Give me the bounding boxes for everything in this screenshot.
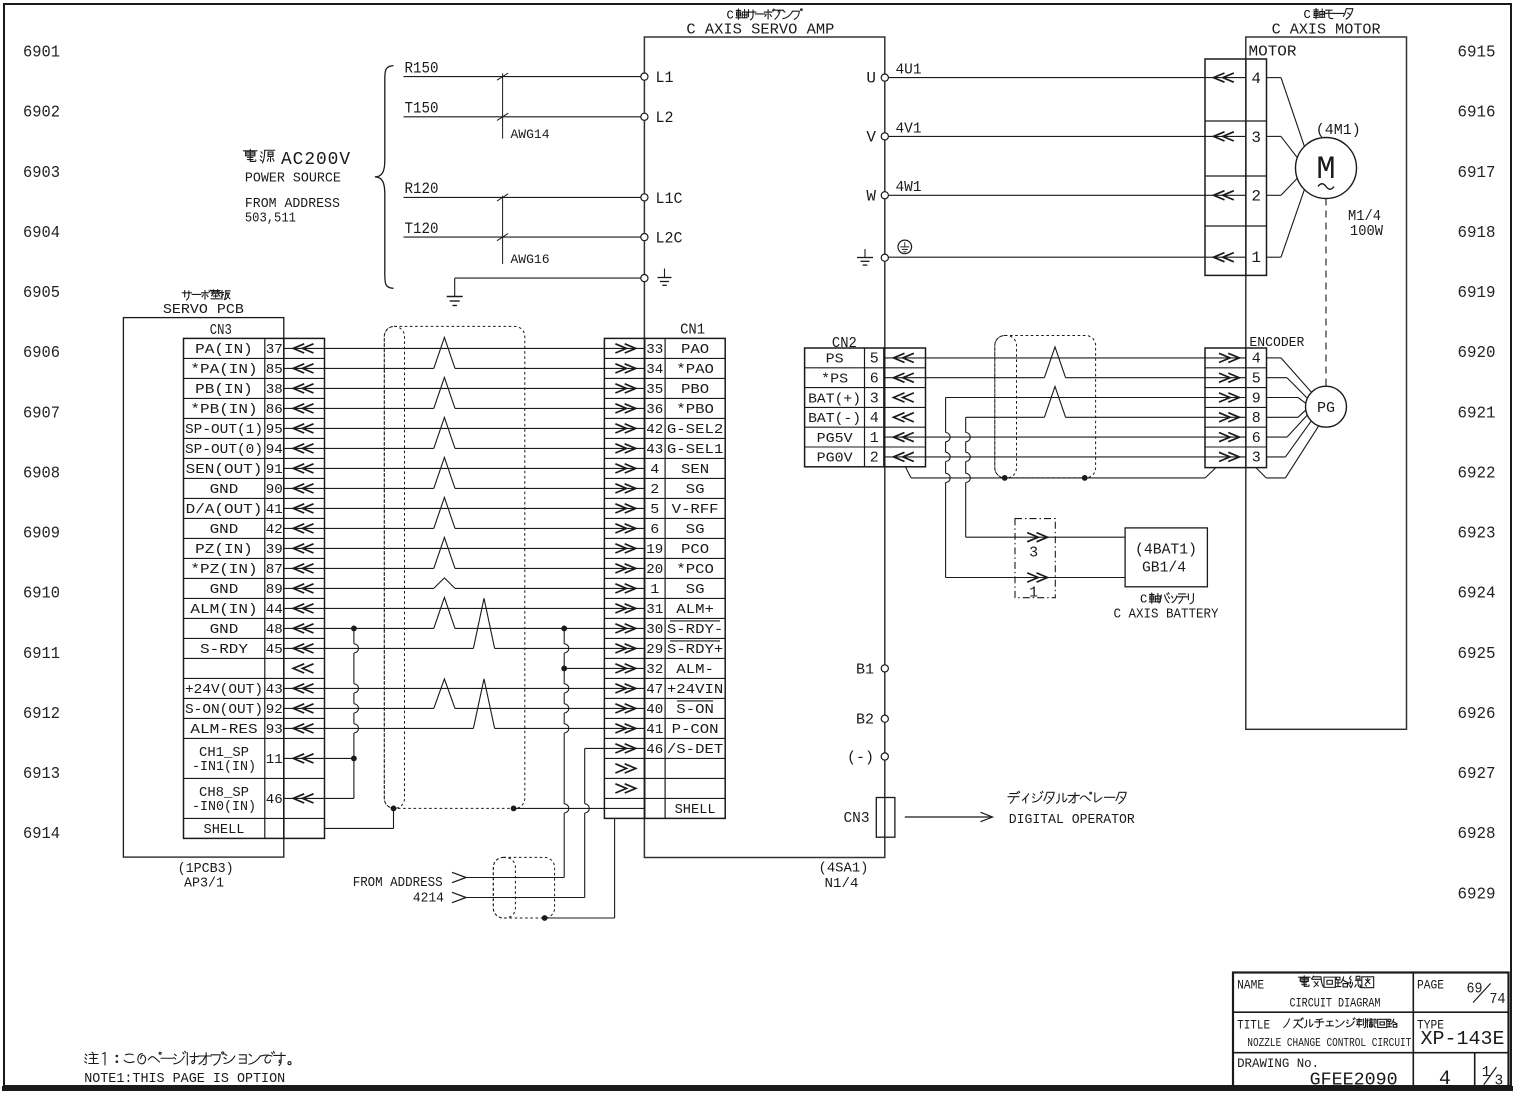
svg-text:XP-143E: XP-143E (1421, 1028, 1505, 1050)
svg-text:T120: T120 (405, 220, 439, 238)
amp terminal B2 (881, 715, 888, 722)
CN2 connector table (805, 348, 884, 467)
amp terminal L1C (641, 194, 648, 201)
svg-text:6928: 6928 (1458, 825, 1496, 844)
svg-text:L1C: L1C (656, 190, 683, 208)
svg-text:4: 4 (1252, 351, 1261, 368)
svg-text:6919: 6919 (1458, 284, 1496, 303)
svg-text:BAT(+): BAT(+) (808, 392, 861, 407)
svg-text:6926: 6926 (1458, 705, 1496, 724)
svg-text:PS: PS (826, 353, 844, 368)
svg-text:SERVO PCB: SERVO PCB (163, 302, 244, 318)
svg-text:6905: 6905 (23, 284, 60, 303)
svg-text:SEN(OUT): SEN(OUT) (186, 462, 263, 478)
wire CN3-CN1 row 5 (284, 427, 645, 429)
svg-text:SG: SG (686, 482, 705, 498)
svg-text:30: 30 (646, 622, 663, 638)
ground symbol left (447, 296, 463, 298)
svg-text:6927: 6927 (1458, 765, 1496, 784)
amp terminal PE right (881, 254, 888, 261)
svg-text:86: 86 (266, 402, 283, 418)
svg-text:CH1_SP: CH1_SP (199, 746, 249, 761)
battery connector (1015, 519, 1055, 598)
encoder pin 6 (1219, 433, 1239, 442)
svg-text:3: 3 (1251, 129, 1261, 147)
svg-text:3: 3 (1029, 545, 1038, 562)
svg-text:90: 90 (266, 482, 283, 498)
svg-text:+24VIN: +24VIN (667, 682, 723, 698)
svg-text:AC200V: AC200V (281, 149, 351, 170)
svg-text:34: 34 (646, 362, 663, 378)
svg-text:95: 95 (266, 422, 283, 438)
svg-text:FROM ADDRESS: FROM ADDRESS (353, 875, 443, 891)
svg-text:L2C: L2C (656, 230, 683, 248)
svg-text:SP-OUT(1): SP-OUT(1) (185, 422, 263, 438)
svg-text:1: 1 (650, 582, 659, 598)
svg-text:1: 1 (1482, 1065, 1491, 1081)
svg-text:91: 91 (266, 462, 283, 478)
title block (1233, 973, 1509, 1088)
svg-text:TITLE: TITLE (1237, 1019, 1270, 1033)
svg-text:T150: T150 (405, 100, 439, 118)
svg-text:BAT(-): BAT(-) (808, 412, 861, 427)
svg-text:CIRCUIT DIAGRAM: CIRCUIT DIAGRAM (1290, 996, 1381, 1011)
svg-text:NOTE1:THIS PAGE IS OPTION: NOTE1:THIS PAGE IS OPTION (84, 1071, 285, 1087)
svg-text:W: W (866, 187, 876, 205)
svg-text:42: 42 (266, 522, 283, 538)
svg-text:29: 29 (646, 642, 663, 658)
svg-text:V-RFF: V-RFF (672, 502, 719, 518)
svg-text:6: 6 (650, 522, 659, 538)
svg-text:46: 46 (646, 742, 663, 758)
svg-text:6908: 6908 (23, 464, 60, 483)
svg-text:45: 45 (266, 642, 283, 658)
svg-text:33: 33 (646, 342, 663, 358)
svg-text:CN1: CN1 (680, 322, 705, 339)
shield drain wire (906, 467, 912, 478)
dashed link motor to PG (1325, 199, 1327, 387)
svg-text:CN3: CN3 (210, 322, 232, 339)
wire U to motor pin 4 (888, 77, 1246, 79)
encoder pin 4 (1219, 353, 1239, 362)
wire CN2 PG0V to encoder 3 (884, 456, 1246, 458)
wire CN3-CN1 row 15 (284, 627, 434, 629)
svg-text:ALM-: ALM- (676, 662, 714, 678)
motor connector pin 2 (1214, 191, 1234, 200)
svg-text:PG: PG (1317, 400, 1335, 417)
svg-text:2: 2 (1251, 188, 1261, 206)
svg-text:4U1: 4U1 (896, 62, 922, 79)
wire motor pin3 to motor (1267, 135, 1282, 137)
wire encoder pin4 to PG (1267, 357, 1282, 359)
svg-text:+24V(OUT): +24V(OUT) (185, 682, 263, 698)
svg-text:89: 89 (266, 582, 283, 598)
svg-text:(4SA1): (4SA1) (819, 861, 869, 877)
svg-text:PBO: PBO (681, 382, 709, 398)
wire CN3-CN1 row 20 (284, 727, 474, 729)
svg-text:31: 31 (646, 602, 663, 618)
wire CN3-CN1 row 8 (284, 487, 434, 489)
wire CN3-CN1 row 10 (284, 527, 434, 529)
servo PCB outer box (123, 318, 283, 858)
wire encoder pin6 to PG (1267, 436, 1288, 438)
wire CN2 PG5V to encoder 6 (884, 436, 1246, 438)
wire motor pin2 to motor (1267, 194, 1282, 196)
svg-text:1: 1 (1251, 249, 1261, 267)
svg-text:AP3/1: AP3/1 (184, 876, 224, 892)
svg-text:5: 5 (650, 502, 659, 518)
svg-text:*PBO: *PBO (676, 402, 714, 418)
svg-text:1: 1 (1029, 585, 1038, 602)
svg-text:SHELL: SHELL (204, 822, 245, 838)
wire CN3-CN1 row 4 (284, 407, 434, 409)
svg-text:6921: 6921 (1458, 404, 1496, 423)
svg-text:93: 93 (266, 722, 283, 738)
svg-text:6923: 6923 (1458, 525, 1496, 544)
svg-text:4: 4 (1251, 70, 1261, 88)
motor connector pin 4 (1214, 73, 1234, 82)
svg-text:6915: 6915 (1458, 44, 1496, 63)
svg-text:C: C (1140, 592, 1147, 606)
amp terminal L1 (641, 73, 648, 80)
wire CN3-CN1 row 19 (284, 707, 434, 709)
svg-text:94: 94 (266, 442, 283, 458)
motor connector box (1205, 59, 1267, 275)
svg-text:6925: 6925 (1458, 645, 1496, 664)
svg-text:R120: R120 (405, 180, 439, 198)
svg-text:6929: 6929 (1458, 885, 1496, 904)
svg-text:503,511: 503,511 (245, 211, 296, 227)
svg-text:N1/4: N1/4 (825, 876, 859, 892)
wire encoder pin8 to PG (1267, 416, 1299, 418)
battery 4BAT1 box (1125, 528, 1207, 587)
svg-text:2: 2 (650, 482, 659, 498)
svg-text:6924: 6924 (1458, 585, 1496, 604)
svg-text:32: 32 (646, 662, 663, 678)
svg-text:DRAWING No.: DRAWING No. (1237, 1056, 1319, 1071)
svg-text:42: 42 (646, 422, 663, 438)
amp terminal L2C (641, 234, 648, 241)
svg-text:3: 3 (1252, 450, 1261, 467)
svg-text:(4BAT1): (4BAT1) (1135, 543, 1197, 559)
amp terminal W (881, 192, 888, 199)
svg-text:PAGE: PAGE (1417, 979, 1444, 993)
svg-text:M: M (1316, 151, 1335, 188)
svg-text:C: C (727, 8, 734, 22)
svg-text:5: 5 (1252, 371, 1261, 388)
svg-text:92: 92 (266, 702, 283, 718)
CN1 shell drain wire (514, 807, 645, 809)
svg-text:6906: 6906 (23, 344, 60, 363)
arrow to digital operator (905, 816, 991, 818)
svg-text:(4M1): (4M1) (1316, 122, 1361, 139)
wire CN3-CN1 row 2 (284, 367, 434, 369)
wire V to motor pin 3 (888, 135, 1246, 137)
svg-text:*PCO: *PCO (676, 562, 714, 578)
svg-text:6912: 6912 (23, 705, 60, 724)
svg-text:PB(IN): PB(IN) (195, 382, 253, 398)
CN3 blank row (293, 664, 313, 673)
svg-text:ALM+: ALM+ (676, 602, 714, 618)
svg-text:4214: 4214 (413, 891, 444, 907)
CN1 shell bottom wire to lower shield (614, 818, 616, 918)
svg-text:43: 43 (646, 442, 663, 458)
svg-text:48: 48 (266, 622, 283, 638)
svg-text:6910: 6910 (23, 585, 60, 604)
svg-text:ALM(IN): ALM(IN) (190, 602, 257, 618)
svg-text:4W1: 4W1 (896, 179, 922, 196)
svg-text:PA(IN): PA(IN) (195, 342, 253, 358)
svg-text:C AXIS SERVO AMP: C AXIS SERVO AMP (686, 22, 834, 39)
svg-text:39: 39 (266, 542, 283, 558)
svg-text:(-): (-) (847, 750, 874, 767)
battery wire vertical 2 (965, 417, 967, 432)
svg-text:87: 87 (266, 562, 283, 578)
wire ALM- from junction to CN1 32 (564, 667, 644, 669)
FROM ADDRESS wire 2 (452, 892, 466, 902)
PG circle (1306, 386, 1347, 427)
C axis servo amp box (644, 37, 884, 858)
svg-text:U: U (866, 70, 876, 88)
svg-text:46: 46 (266, 792, 283, 808)
svg-text:4V1: 4V1 (896, 120, 922, 137)
svg-text:36: 36 (646, 402, 663, 418)
svg-text:85: 85 (266, 362, 283, 378)
svg-text:C: C (1304, 8, 1311, 22)
wire CN3-CN1 row 13 (284, 587, 434, 589)
svg-text:AWG16: AWG16 (511, 252, 550, 267)
/S-DET wire to FROM ADDRESS 4214 (585, 747, 645, 749)
svg-text:35: 35 (646, 382, 663, 398)
svg-text:C AXIS MOTOR: C AXIS MOTOR (1272, 22, 1381, 39)
svg-text:PAO: PAO (681, 342, 709, 358)
svg-text:4: 4 (870, 410, 879, 427)
motor connector pin 3 (1214, 132, 1234, 141)
svg-text:74: 74 (1490, 992, 1506, 1008)
battery wire vertical 1 (945, 398, 947, 433)
motor connector pin 1 (1214, 253, 1234, 262)
label servo PCB (182, 291, 191, 300)
wire CN3-CN1 row 14 (284, 607, 645, 609)
wire encoder pin5 to PG (1267, 377, 1288, 379)
svg-text:6917: 6917 (1458, 164, 1496, 183)
svg-text:1: 1 (870, 430, 879, 447)
svg-text:3: 3 (870, 390, 879, 407)
svg-text:S-RDY+: S-RDY+ (667, 642, 723, 658)
svg-text:CN3: CN3 (844, 810, 870, 827)
svg-text:POWER SOURCE: POWER SOURCE (245, 171, 341, 187)
svg-text:6909: 6909 (23, 525, 60, 544)
amp terminal (-) (881, 753, 888, 760)
svg-text:SG: SG (686, 582, 705, 598)
cable tie AWG14 (502, 73, 504, 138)
wire encoder pin9 to PG (1267, 397, 1299, 399)
svg-text:SEN: SEN (681, 462, 709, 478)
svg-text:GB1/4: GB1/4 (1142, 561, 1186, 577)
svg-text:6901: 6901 (23, 44, 60, 63)
svg-text:G-SEL2: G-SEL2 (667, 422, 723, 438)
svg-text:DIGITAL OPERATOR: DIGITAL OPERATOR (1009, 812, 1136, 828)
encoder pin 5 (1219, 373, 1239, 382)
svg-text:5: 5 (870, 351, 879, 368)
wire motor pin1 to motor (1267, 256, 1282, 258)
svg-text:GND: GND (210, 622, 239, 638)
wire CN2 PS to encoder 4 (884, 357, 1246, 359)
wire CN3-CN1 row 3 (284, 387, 645, 389)
encoder pin 9 (1219, 393, 1239, 402)
note 1 japanese (85, 1052, 99, 1063)
svg-text:*PS: *PS (821, 373, 848, 388)
amp terminal V (881, 133, 888, 140)
svg-text:6916: 6916 (1458, 104, 1496, 123)
wire CN3-CN1 row 11 (284, 547, 645, 549)
wire R150 to L1 (404, 76, 641, 78)
cable tie AWG16 (502, 196, 504, 264)
wire T120 to L2C (404, 236, 641, 238)
svg-text:L1: L1 (656, 69, 674, 87)
wire R120 to L1C (404, 196, 641, 198)
GND net vertical (353, 628, 355, 643)
svg-text:6922: 6922 (1458, 464, 1496, 483)
svg-text:PCO: PCO (681, 542, 709, 558)
ground wire from amp left (455, 277, 641, 279)
lower shield FROM ADDRESS (493, 857, 554, 918)
svg-text:SG: SG (686, 522, 705, 538)
amp terminal U (881, 74, 888, 81)
svg-text:38: 38 (266, 382, 283, 398)
svg-text:37: 37 (266, 342, 283, 358)
svg-text:S-ON: S-ON (676, 702, 714, 718)
svg-text:PG5V: PG5V (817, 432, 854, 447)
svg-text:*PB(IN): *PB(IN) (190, 402, 257, 418)
wire CH1_SP to GND net (284, 757, 354, 759)
label digital operator (1008, 791, 1020, 803)
label power source AC200V (243, 149, 257, 161)
wire motor pin4 to motor (1267, 77, 1282, 79)
svg-text:41: 41 (646, 722, 663, 738)
svg-text:S-ON(OUT): S-ON(OUT) (185, 702, 263, 718)
CN3 shell drain wire (325, 827, 394, 829)
svg-text:19: 19 (646, 542, 663, 558)
svg-text:ALM-RES: ALM-RES (190, 722, 257, 738)
svg-text:NOZZLE CHANGE CONTROL CIRCUIT: NOZZLE CHANGE CONTROL CIRCUIT (1247, 1036, 1411, 1050)
wire CN3-CN1 row 16 (284, 647, 474, 649)
svg-text:S-RDY: S-RDY (200, 642, 249, 658)
svg-text:6918: 6918 (1458, 224, 1496, 243)
svg-text:*PA(IN): *PA(IN) (190, 362, 257, 378)
svg-text:6: 6 (870, 371, 879, 388)
svg-text:SP-OUT(0): SP-OUT(0) (185, 442, 263, 458)
svg-text:GND: GND (210, 482, 239, 498)
svg-text:6904: 6904 (23, 224, 60, 243)
svg-text:/S-DET: /S-DET (667, 742, 723, 758)
svg-text:AWG14: AWG14 (511, 127, 550, 142)
encoder pin 3 (1219, 452, 1239, 461)
FROM ADDRESS wire 1 (452, 872, 466, 882)
CN3 digital operator connector (876, 798, 895, 838)
svg-text:40: 40 (646, 702, 663, 718)
svg-text:4: 4 (650, 462, 659, 478)
C axis motor box (1246, 37, 1407, 729)
amp terminal B1 (881, 665, 888, 672)
svg-text:*PZ(IN): *PZ(IN) (190, 562, 257, 578)
svg-text:PZ(IN): PZ(IN) (195, 542, 253, 558)
shield CN2-encoder (995, 336, 1096, 478)
svg-text:41: 41 (266, 502, 283, 518)
wire CH8_SP to GND net (284, 797, 354, 799)
svg-text:G-SEL1: G-SEL1 (667, 442, 723, 458)
svg-text:SHELL: SHELL (675, 802, 716, 818)
wire CN3-CN1 row 9 (284, 507, 645, 509)
wire encoder 8 to battery (BAT-) (966, 416, 1045, 418)
svg-text:CH8_SP: CH8_SP (199, 786, 249, 801)
svg-text:V: V (866, 128, 876, 146)
wire CN3-CN1 row 7 (284, 467, 645, 469)
svg-text:L2: L2 (656, 109, 674, 127)
svg-text:GND: GND (210, 522, 239, 538)
svg-text:NAME: NAME (1237, 979, 1264, 993)
svg-text:6903: 6903 (23, 164, 60, 183)
svg-text:6902: 6902 (23, 104, 60, 123)
wire CN3-CN1 row 6 (284, 447, 434, 449)
CN1 connector table (604, 338, 644, 818)
svg-text:R150: R150 (405, 60, 439, 78)
svg-text:B1: B1 (856, 661, 874, 678)
svg-text:3: 3 (1495, 1074, 1504, 1090)
wire CN3-CN1 row 12 (284, 567, 434, 569)
svg-text:6920: 6920 (1458, 344, 1496, 363)
ALM-/S-RDY- net vertical to FROM ADDRESS (563, 628, 565, 643)
svg-text:100W: 100W (1350, 223, 1383, 240)
svg-text:PG0V: PG0V (817, 452, 854, 467)
amp terminal PE left (641, 275, 648, 282)
wire encoder pin3 to PG (1267, 456, 1286, 458)
svg-text:4: 4 (1439, 1068, 1451, 1091)
svg-text:B2: B2 (856, 712, 874, 729)
svg-text:MOTOR: MOTOR (1249, 44, 1297, 61)
motor circle 4M1 (1296, 138, 1357, 199)
svg-text:-IN1(IN): -IN1(IN) (192, 760, 256, 775)
wire T150 to L2 (404, 116, 641, 118)
svg-text:43: 43 (266, 682, 283, 698)
svg-text:8: 8 (1252, 410, 1261, 427)
svg-text:6911: 6911 (23, 645, 60, 664)
power source brace (375, 66, 394, 289)
protective earth circle symbol (898, 240, 912, 254)
amp terminal L2 (641, 113, 648, 120)
svg-text:2: 2 (870, 450, 879, 467)
wire encoder 9 to battery (BAT+) (946, 397, 1246, 399)
wire W to motor pin 2 (888, 194, 1246, 196)
svg-text:6: 6 (1252, 430, 1261, 447)
wire CN2 *PS to encoder 5 (twisted) (884, 377, 1044, 379)
svg-text:47: 47 (646, 682, 663, 698)
svg-text:GND: GND (210, 582, 239, 598)
svg-text:6907: 6907 (23, 404, 60, 423)
svg-text:11: 11 (266, 752, 283, 768)
svg-text:C AXIS BATTERY: C AXIS BATTERY (1114, 607, 1220, 623)
svg-text:6913: 6913 (23, 765, 60, 784)
svg-text:P-CON: P-CON (672, 722, 719, 738)
wire PE to motor pin 1 (888, 256, 1246, 258)
svg-text:44: 44 (266, 602, 283, 618)
svg-text:D/A(OUT): D/A(OUT) (186, 502, 263, 518)
svg-text:GFEE2090: GFEE2090 (1310, 1071, 1398, 1091)
shield CN3-CN1 (384, 326, 525, 808)
svg-text:S-RDY-: S-RDY- (667, 622, 723, 638)
svg-text:CN2: CN2 (832, 335, 857, 352)
svg-text:-IN0(IN): -IN0(IN) (192, 800, 256, 815)
